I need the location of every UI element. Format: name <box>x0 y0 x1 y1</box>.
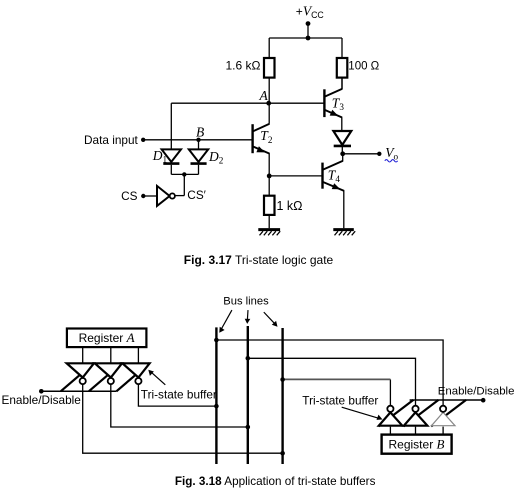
svg-text:Tri-state buffer: Tri-state buffer <box>141 387 217 401</box>
svg-text:Enable/Disable: Enable/Disable <box>2 393 82 407</box>
svg-text:Register B: Register B <box>389 437 445 452</box>
svg-text:Bus lines: Bus lines <box>223 296 269 308</box>
svg-text:100 Ω: 100 Ω <box>348 61 379 73</box>
svg-text:A: A <box>259 88 269 103</box>
svg-text:Fig. 3.17 Tri-state logic gate: Fig. 3.17 Tri-state logic gate <box>184 253 334 267</box>
svg-text:Tri-state buffer: Tri-state buffer <box>302 394 378 408</box>
svg-text:B: B <box>196 124 204 139</box>
svg-text:Fig. 3.18 Application of tri-s: Fig. 3.18 Application of tri-state buffe… <box>175 475 376 488</box>
svg-text:Enable/Disable: Enable/Disable <box>438 385 515 397</box>
svg-text:Register A: Register A <box>79 330 135 345</box>
svg-text:1.6 kΩ: 1.6 kΩ <box>226 59 261 73</box>
svg-text:1 kΩ: 1 kΩ <box>277 199 303 213</box>
svg-text:Data input: Data input <box>84 133 138 147</box>
svg-text:CS: CS <box>121 189 138 203</box>
svg-text:CS′: CS′ <box>187 188 206 202</box>
